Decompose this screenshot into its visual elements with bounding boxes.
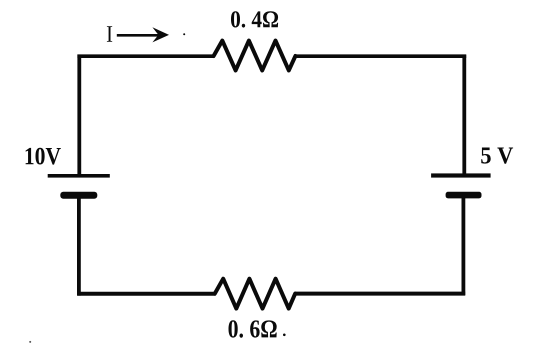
wire: right side, below battery B2 <box>461 196 465 295</box>
wire: left side, below battery B1 <box>77 196 81 296</box>
wire: right side, above battery B2 <box>462 55 466 175</box>
label 0.4 ohm <box>231 11 278 27</box>
label I <box>107 26 112 42</box>
battery B1 negative plate (short) <box>60 192 97 199</box>
wire: bottom side, right of R2 <box>295 292 465 296</box>
resistor R2 (0.6 ohm) zigzag <box>215 279 295 309</box>
speck artifact bottom-left <box>29 341 31 343</box>
wire: bottom side, left of R2 <box>77 292 215 296</box>
label 5 V <box>481 148 513 164</box>
resistor R1 (0.4 ohm) zigzag <box>214 41 296 71</box>
label 0.6 ohm <box>229 320 277 337</box>
speck artifact after 0.6 ohm label <box>283 334 286 337</box>
battery B2 positive plate (long) <box>431 173 491 177</box>
battery B2 negative plate (short) <box>446 192 482 199</box>
wire: top side, left of R1 <box>77 54 214 58</box>
wire: left side, above battery B1 <box>77 55 81 175</box>
battery B1 positive plate (long) <box>48 174 110 178</box>
current arrow I: shaft <box>117 34 160 37</box>
wire: top side, right of R1 <box>295 54 466 58</box>
label 10V <box>26 148 61 165</box>
speck artifact near top wire <box>183 33 185 35</box>
current arrow I: head <box>152 27 169 42</box>
